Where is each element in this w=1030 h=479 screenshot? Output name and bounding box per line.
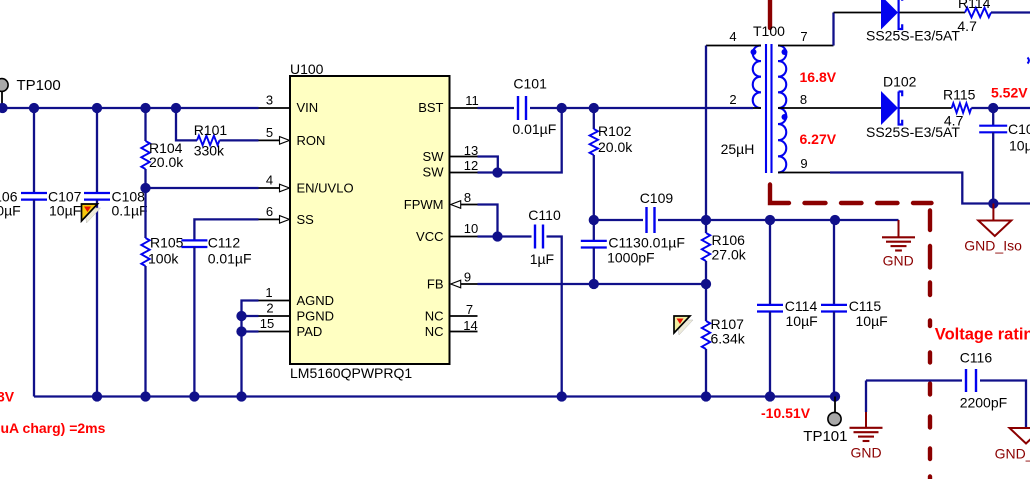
svg-text:1000pF: 1000pF <box>607 250 654 266</box>
wire EN/UVLO net <box>146 187 259 189</box>
wire AGND/PGND/PAD net <box>242 301 259 397</box>
wire SW13 to SW12 <box>478 157 498 173</box>
resistor R105 <box>144 188 146 238</box>
svg-text:GND_Iso: GND_Iso <box>964 238 1022 254</box>
wire T100 pin4 down to GND net <box>705 46 707 221</box>
junction C106 <box>29 103 39 113</box>
svg-text:-10.51V: -10.51V <box>761 405 811 421</box>
capacitor C101 <box>517 96 519 120</box>
svg-text:C115: C115 <box>849 298 882 314</box>
svg-text:0.01µF: 0.01µF <box>208 251 252 267</box>
T100 primary winding <box>753 46 761 109</box>
junction R107 bottom <box>701 391 711 401</box>
capacitor C109 <box>645 207 647 233</box>
U100 pin 5 RON stub <box>259 139 281 141</box>
wire D101 row <box>834 12 882 14</box>
wire pin7 up to D101 <box>832 13 834 46</box>
svg-text:10µF: 10µF <box>49 203 81 219</box>
svg-text:SW: SW <box>423 149 445 164</box>
svg-text:AGND: AGND <box>297 293 335 308</box>
junction C115 top <box>830 215 840 225</box>
junction PGND line bottom <box>236 391 246 401</box>
svg-text:C110: C110 <box>528 207 561 223</box>
svg-text:0.01µF: 0.01µF <box>641 235 685 251</box>
U100 pin 2 PGND stub <box>259 315 291 317</box>
wire VCC to C110 <box>478 235 532 237</box>
wire T100 pin 7 <box>778 45 834 47</box>
wire T100 pin 9 <box>778 172 830 174</box>
svg-text:4: 4 <box>729 29 736 44</box>
resistor R106 <box>705 220 707 233</box>
wire FB net <box>478 283 707 285</box>
wire T100 pin 2 stub <box>753 107 761 109</box>
junction FPWM/VCC <box>492 231 502 241</box>
test point TP101 <box>834 397 836 413</box>
capacitor C113 <box>593 220 595 241</box>
svg-text:R105: R105 <box>150 235 184 251</box>
T100 polarity dots <box>751 49 757 55</box>
svg-text:NC: NC <box>425 324 444 339</box>
svg-text:R102: R102 <box>598 123 632 139</box>
U100 pin 9 FB stub <box>460 283 478 285</box>
svg-text:4.7: 4.7 <box>944 113 964 129</box>
svg-text:GND: GND <box>883 253 914 269</box>
junction C110 gnd <box>557 391 567 401</box>
U100 pin 11 BST stub <box>450 107 478 109</box>
wire C116 to GND_Iso lower <box>980 381 1026 429</box>
svg-text:15: 15 <box>260 316 274 331</box>
junction C103 top / 5.52V net <box>988 103 998 113</box>
svg-text:PAD: PAD <box>297 324 323 339</box>
wire C101 to SW node <box>530 107 562 109</box>
svg-text:BST: BST <box>418 100 443 115</box>
svg-text:10µF: 10µF <box>856 313 888 329</box>
diode D102 <box>881 91 898 125</box>
junction TP100/VIN <box>0 103 8 113</box>
junction SW node <box>557 103 567 113</box>
svg-text:C101: C101 <box>513 76 547 92</box>
svg-text:9: 9 <box>464 270 471 285</box>
U100 pin 10 VCC stub <box>450 236 478 238</box>
svg-text:9: 9 <box>800 156 807 171</box>
transformer T100 core <box>765 44 767 173</box>
resistor R114 <box>965 8 991 18</box>
U100 pin 15 PAD stub <box>259 331 291 333</box>
diode D101 <box>881 0 898 30</box>
svg-text:2: 2 <box>266 301 273 316</box>
node EN/UVLO divider junction <box>140 183 150 193</box>
wire T100 pin 4 <box>706 45 761 47</box>
wire C110 to GND rail <box>547 237 562 397</box>
T100 secondary winding lower <box>778 108 786 173</box>
svg-text:27.0k: 27.0k <box>712 247 747 263</box>
wire GND net (middle) <box>594 219 643 221</box>
svg-text:R115: R115 <box>943 87 976 103</box>
junction C114 bottom <box>765 391 775 401</box>
svg-text:R101: R101 <box>194 122 228 138</box>
svg-text:10: 10 <box>464 221 478 236</box>
svg-text:FPWM: FPWM <box>404 197 444 212</box>
svg-text:5.52V: 5.52V <box>991 85 1028 101</box>
svg-text:2: 2 <box>729 92 736 107</box>
wire R115 to output (right edge) <box>971 107 1030 109</box>
svg-text:FB: FB <box>427 277 444 292</box>
isolation barrier dashed line <box>770 185 789 204</box>
svg-text:11: 11 <box>465 93 479 108</box>
ground GND (bottom, near TP101) <box>865 381 867 413</box>
wire SW node to T100 pin 2 <box>594 107 753 109</box>
svg-text:10µF: 10µF <box>1009 138 1030 154</box>
resistor R115 <box>952 103 972 113</box>
wire pin9 to GND_Iso net <box>830 173 1030 204</box>
test point TP100 <box>1 90 3 107</box>
ground GND_Iso (upper) <box>992 204 994 221</box>
svg-text:6.34k: 6.34k <box>711 331 746 347</box>
svg-text:12: 12 <box>464 158 478 173</box>
svg-text:RON: RON <box>297 133 326 148</box>
svg-text:Voltage rating: Voltage rating <box>935 326 1030 344</box>
svg-text:3V: 3V <box>0 389 15 405</box>
wire VIN net (main top rail) <box>0 107 259 109</box>
svg-text:TP101: TP101 <box>803 428 847 445</box>
U100 pin 3 VIN stub <box>259 107 291 109</box>
junction PAD <box>236 326 246 336</box>
U100 pin 14 NC stub <box>450 331 478 333</box>
wire BST to C101 <box>478 107 515 109</box>
wire GND net to GND symbol <box>658 219 899 221</box>
wire D101 to R114 <box>900 12 966 14</box>
junction C115 bottom / TP101 <box>830 391 840 401</box>
svg-text:1µF: 1µF <box>530 251 554 267</box>
svg-text:SS25S-E3/5AT: SS25S-E3/5AT <box>866 28 960 44</box>
svg-text:VIN: VIN <box>297 100 319 115</box>
capacitor C107 <box>96 108 98 193</box>
U100 pin 6 SS stub <box>259 218 281 220</box>
junction GND_Iso net <box>988 198 998 208</box>
svg-text:C112: C112 <box>208 235 241 251</box>
capacitor C114 <box>769 220 771 305</box>
svg-text:C114: C114 <box>785 298 818 314</box>
junction R106/R107 <box>701 279 711 289</box>
junction C113 bottom <box>589 279 599 289</box>
capacitor C112 <box>181 239 207 241</box>
svg-text:C113: C113 <box>608 235 641 251</box>
capacitor C116 <box>965 369 967 392</box>
svg-text:0.1µF: 0.1µF <box>112 203 148 219</box>
resistor R101 <box>176 108 197 140</box>
U100 pin 12 SW stub <box>450 172 478 174</box>
svg-text:R114: R114 <box>958 0 991 11</box>
svg-text:14: 14 <box>463 318 477 333</box>
wire T100 pin 8 <box>778 107 881 109</box>
junction T100 pin4 / R106 <box>701 215 711 225</box>
wire FPWM to VCC <box>478 205 498 237</box>
svg-text:LM5160QPWPRQ1: LM5160QPWPRQ1 <box>290 365 412 381</box>
svg-text:D102: D102 <box>883 74 917 90</box>
svg-text:20.0k: 20.0k <box>149 154 184 170</box>
ground GND (middle right) <box>898 220 900 237</box>
wire D102 row <box>900 107 952 109</box>
resistor R104 <box>144 108 146 141</box>
ground GND_Iso (lower right, cut) <box>1010 428 1030 444</box>
capacitor C115 <box>833 220 835 305</box>
note marker at C107 <box>85 208 101 223</box>
junction C112 bottom <box>189 391 199 401</box>
svg-text:4: 4 <box>266 173 273 188</box>
svg-text:EN/UVLO: EN/UVLO <box>297 181 354 196</box>
capacitor C106 (cut at left edge) <box>33 108 35 193</box>
wire SW12 up to SW node <box>478 108 562 173</box>
junction PGND <box>236 311 246 321</box>
U100 pin 1 AGND stub <box>259 300 291 302</box>
junction SW pins <box>492 167 502 177</box>
capacitor C103 <box>992 108 994 126</box>
wire C116 net <box>866 379 962 381</box>
svg-text:20.0k: 20.0k <box>598 139 633 155</box>
svg-text:SW: SW <box>423 165 445 180</box>
svg-text:10µF: 10µF <box>0 203 21 219</box>
svg-text:4.7: 4.7 <box>957 18 977 34</box>
svg-text:16.8V: 16.8V <box>800 69 837 85</box>
svg-text:3: 3 <box>266 93 273 108</box>
junction C114 top <box>765 215 775 225</box>
junction C107 <box>92 103 102 113</box>
svg-text:PGND: PGND <box>297 309 335 324</box>
wire SW node <box>562 107 594 109</box>
svg-text:6: 6 <box>266 204 273 219</box>
svg-text:U100: U100 <box>290 61 324 77</box>
svg-text:VCC: VCC <box>416 229 443 244</box>
junction C107 bottom <box>92 391 102 401</box>
svg-text:8: 8 <box>464 190 471 205</box>
svg-text:10µF: 10µF <box>786 313 818 329</box>
svg-text:NC: NC <box>425 309 444 324</box>
svg-text:7: 7 <box>800 29 807 44</box>
svg-text:TP100: TP100 <box>17 77 61 94</box>
junction R104 <box>140 103 150 113</box>
svg-text:1: 1 <box>265 285 272 300</box>
svg-text:SS: SS <box>297 212 315 227</box>
svg-text:13: 13 <box>464 143 478 158</box>
blue fragment at right edge <box>1028 58 1030 64</box>
wire bottom GND rail <box>34 395 836 397</box>
op-amp/regulator U100 body <box>290 76 450 364</box>
junction R105 bottom <box>140 391 150 401</box>
svg-text:2200pF: 2200pF <box>960 395 1007 411</box>
svg-text:GND_Iso: GND_Iso <box>995 446 1030 462</box>
svg-text:C103: C103 <box>1008 121 1030 137</box>
U100 pin 7 NC stub <box>450 315 478 317</box>
svg-text:7: 7 <box>466 302 473 317</box>
T100 secondary winding upper <box>778 46 786 109</box>
note marker at R107 <box>677 320 693 335</box>
isolation barrier dash (top, behind T100 label) <box>768 0 772 28</box>
U100 pin 13 SW stub <box>450 156 478 158</box>
U100 pin 4 EN/UVLO stub <box>259 187 281 189</box>
resistor R102 <box>593 108 595 129</box>
wire R114 out (right edge) <box>991 11 1030 13</box>
resistor R107 <box>705 284 707 321</box>
capacitor C110 <box>534 225 536 249</box>
junction R101 branch <box>171 103 181 113</box>
svg-text:5: 5 <box>266 125 273 140</box>
svg-text:6.27V: 6.27V <box>800 131 837 147</box>
svg-text:8: 8 <box>800 92 807 107</box>
svg-text:T100: T100 <box>753 23 785 39</box>
svg-text:C109: C109 <box>640 190 674 206</box>
junction R102/C113/C109 <box>589 215 599 225</box>
junction R102 top <box>589 103 599 113</box>
svg-text:GND: GND <box>851 445 882 461</box>
wire SS net <box>194 219 258 240</box>
svg-text:100k: 100k <box>148 251 179 267</box>
svg-text:330k: 330k <box>194 143 225 159</box>
svg-text:25µH: 25µH <box>721 141 755 157</box>
svg-text:0.01µF: 0.01µF <box>512 121 556 137</box>
U100 pin 8 FPWM stub <box>460 204 478 206</box>
svg-text:uA charg) =2ms: uA charg) =2ms <box>1 420 106 436</box>
svg-text:C116: C116 <box>960 350 993 366</box>
